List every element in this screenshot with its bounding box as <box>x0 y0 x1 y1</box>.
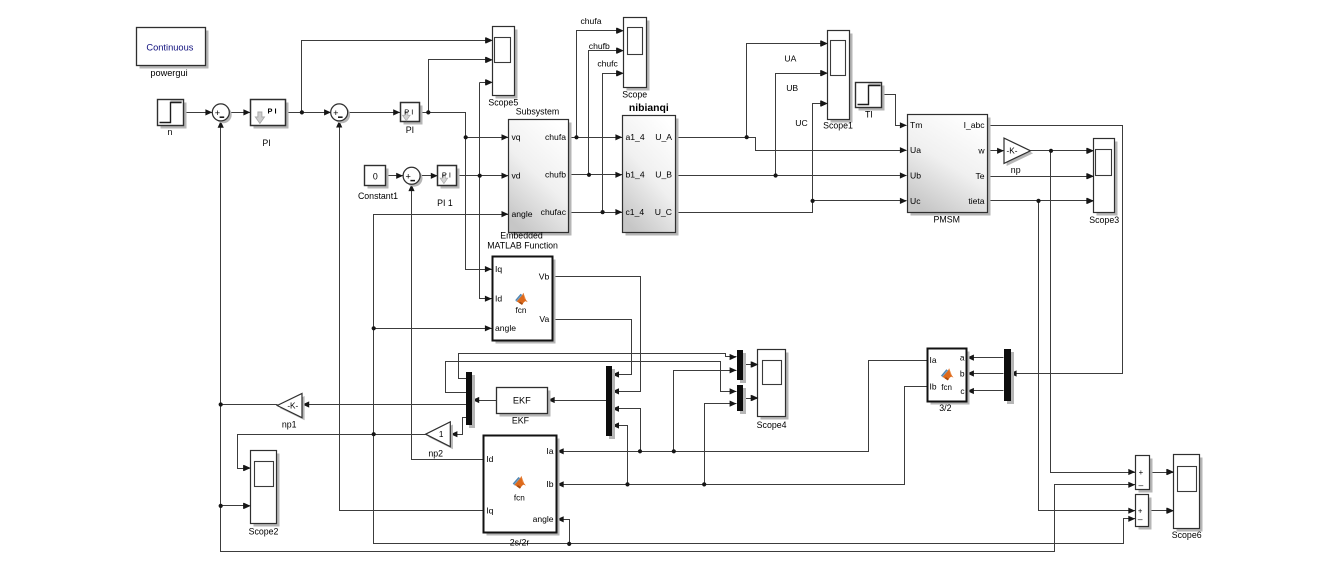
svg-text:Constant1: Constant1 <box>358 191 398 201</box>
svg-text:c1_4: c1_4 <box>626 207 645 217</box>
svg-text:EKF: EKF <box>513 396 531 406</box>
wire demux out2 to mux8 in1 <box>446 362 737 395</box>
Scope4 mux lower <box>737 385 746 414</box>
svg-text:a: a <box>960 353 965 363</box>
step block TI <box>856 83 885 111</box>
svg-text:b: b <box>960 369 965 379</box>
svg-text:PI 1: PI 1 <box>437 198 453 208</box>
svg-text:UB: UB <box>786 83 798 93</box>
signal label UC <box>795 118 807 128</box>
svg-text:Continuous: Continuous <box>146 43 193 53</box>
Scope6 <box>1167 455 1202 541</box>
wire Iq output to sum2 <box>336 121 483 511</box>
svg-text:+: + <box>333 108 338 118</box>
svg-text:angle: angle <box>512 209 533 219</box>
label np <box>1011 165 1021 175</box>
svg-text:3/2: 3/2 <box>939 403 951 413</box>
svg-text:Ub: Ub <box>910 170 921 180</box>
svg-text:n: n <box>168 127 173 137</box>
label Constant1 <box>358 191 398 201</box>
wire w to gain np <box>988 148 1005 154</box>
Scope4 <box>752 350 789 431</box>
svg-text:Ia: Ia <box>546 446 553 456</box>
svg-text:Ib: Ib <box>546 479 553 489</box>
label Subsystem <box>516 107 560 117</box>
label n <box>168 127 173 137</box>
svg-text:+: + <box>215 108 220 118</box>
svg-text:Scope3: Scope3 <box>1089 215 1119 225</box>
svg-text:Embedded: Embedded <box>500 231 543 241</box>
signal label chufb <box>589 41 610 51</box>
svg-text:chufa: chufa <box>580 16 601 26</box>
wire Ib branch to mux in4 <box>612 422 627 484</box>
svg-text:EKF: EKF <box>512 416 530 426</box>
wire I_abc to current demux <box>988 126 1123 377</box>
svg-text:1: 1 <box>439 430 444 439</box>
svg-text:vq: vq <box>512 132 521 142</box>
label 3/2 <box>939 403 951 413</box>
svg-text:angle: angle <box>495 323 516 333</box>
wire PI 1 out: to vd, Id and Scope5 in3 <box>457 79 509 301</box>
label np2 <box>428 449 443 459</box>
wire demux out3 to np1 <box>302 401 466 407</box>
step block n <box>158 100 187 129</box>
SumB block <box>1136 495 1152 530</box>
svg-text:+: + <box>406 171 411 181</box>
svg-text:chufa: chufa <box>545 132 566 142</box>
current demux bar <box>1004 349 1014 404</box>
svg-text:Subsystem: Subsystem <box>516 107 560 117</box>
wire Vb to mux in2 <box>553 277 641 395</box>
wire demux out1 to mux7 in1 <box>459 354 737 379</box>
svg-text:chufb: chufb <box>545 170 566 180</box>
Scope3 <box>1087 139 1119 226</box>
svg-text:powergui: powergui <box>150 68 187 78</box>
wire Id output to sum3 <box>408 184 483 459</box>
svg-text:UC: UC <box>795 118 807 128</box>
svg-text:P I: P I <box>268 107 277 116</box>
wire demux out4 to np2 <box>451 418 467 438</box>
svg-text:Scope4: Scope4 <box>757 420 787 430</box>
wire chufac to c1_4 and Scope <box>569 70 624 215</box>
svg-text:chufac: chufac <box>541 207 567 217</box>
svg-text:Ia: Ia <box>930 355 937 365</box>
wire Ia branch to mux in3 <box>612 406 640 452</box>
wire TI to Tm <box>882 95 907 129</box>
wire Ia net from 3/2 to 2s2r <box>557 361 928 455</box>
label 2s/2r <box>510 538 530 548</box>
svg-text:Iq: Iq <box>495 264 502 274</box>
wire np1 feedback to sum1 Scope2 and SumA minus <box>218 121 1136 552</box>
wire Va to mux in1 <box>553 320 632 378</box>
PI controller block <box>251 100 289 129</box>
wire current demux to 3/2 a b c <box>967 355 1004 395</box>
svg-text:chufc: chufc <box>597 59 618 69</box>
svg-text:2s/2r: 2s/2r <box>510 538 530 548</box>
wire U_A to Ua and Scope1 <box>676 40 907 153</box>
Scope1 <box>821 31 853 131</box>
label TI <box>865 110 873 120</box>
gain np1 <box>277 393 304 420</box>
svg-text:U_A: U_A <box>655 132 672 142</box>
Subsystem block <box>509 120 572 236</box>
svg-text:Id: Id <box>486 454 493 464</box>
sum3 <box>403 167 422 186</box>
signal label chufc <box>597 59 618 69</box>
wire U_B to Ub and Scope1 <box>676 70 907 179</box>
wire np to Scope3 and SumA <box>1031 148 1136 475</box>
svg-text:fcn: fcn <box>941 383 952 392</box>
svg-text:PI: PI <box>262 138 270 148</box>
svg-text:b1_4: b1_4 <box>626 170 645 180</box>
svg-text:Scope5: Scope5 <box>488 98 518 108</box>
svg-text:Ib: Ib <box>930 381 937 391</box>
svg-text:0: 0 <box>373 171 378 181</box>
svg-text:–: – <box>1139 480 1144 490</box>
label Embedded MATLAB Function <box>487 231 558 251</box>
svg-text:PMSM: PMSM <box>934 215 960 225</box>
signal label UB <box>786 83 798 93</box>
label PI small <box>406 125 414 135</box>
svg-text:Tm: Tm <box>910 120 922 130</box>
EKF block <box>497 388 551 417</box>
Scope4 mux upper <box>737 350 746 383</box>
powergui block <box>137 28 209 69</box>
svg-text:Vb: Vb <box>539 271 550 281</box>
svg-text:chufb: chufb <box>589 41 610 51</box>
signal label chufa <box>580 16 601 26</box>
svg-text:P I: P I <box>442 171 451 180</box>
PMSM block <box>908 115 991 216</box>
label np1 <box>282 420 297 430</box>
sum2 <box>331 104 350 123</box>
wire sum2 to PI small <box>348 109 401 115</box>
svg-text:I_abc: I_abc <box>964 120 986 130</box>
svg-text:-K-: -K- <box>287 401 298 410</box>
Scope2 <box>244 451 280 537</box>
svg-text:MATLAB Function: MATLAB Function <box>487 241 558 251</box>
wire mux7 to Scope4 in1 <box>743 361 758 367</box>
svg-text:Uc: Uc <box>910 196 921 206</box>
svg-text:Scope1: Scope1 <box>823 121 853 131</box>
svg-text:fcn: fcn <box>514 494 525 503</box>
svg-text:np1: np1 <box>282 420 297 430</box>
svg-text:a1_4: a1_4 <box>626 132 645 142</box>
svg-text:TI: TI <box>865 110 873 120</box>
wire chufa to a1_4 and Scope <box>569 28 624 141</box>
svg-text:–: – <box>1138 514 1143 524</box>
wire Constant1 to sum3 <box>387 173 404 179</box>
wire sum3 to PI 1 <box>420 173 438 179</box>
wire tieta to Scope3 and SumB <box>988 198 1136 514</box>
svg-text:Te: Te <box>976 171 985 181</box>
svg-text:vd: vd <box>512 171 521 181</box>
Scope block top <box>617 18 650 100</box>
wire PI to sum2 with branch to Scope5 <box>286 37 493 115</box>
gain np2 <box>426 422 453 449</box>
svg-text:Va: Va <box>539 314 549 324</box>
label EKF <box>512 416 530 426</box>
wire EKF to demux <box>472 397 496 403</box>
wire SumB to Scope6 <box>1149 508 1174 514</box>
wire sum1 to PI <box>230 109 251 115</box>
EKF mux bar <box>606 366 615 439</box>
wire U_C to Uc and Scope1 <box>676 100 907 212</box>
svg-text:Ua: Ua <box>910 145 921 155</box>
svg-text:Iq: Iq <box>486 505 493 515</box>
wire SumA to Scope6 <box>1150 469 1174 475</box>
SumA block <box>1136 456 1153 493</box>
svg-text:nibianqi: nibianqi <box>629 103 669 114</box>
EKF demux bar <box>466 372 475 428</box>
svg-text:PI: PI <box>406 125 414 135</box>
svg-text:Scope6: Scope6 <box>1172 530 1202 540</box>
powergui label <box>150 68 187 78</box>
wire PI small out: to vq and Iq, branch to Scope5 in2 <box>420 57 509 272</box>
signal label UA <box>784 54 796 64</box>
wire Ib net from 3/2 to 2s2r <box>557 387 928 488</box>
wire mux to EKF <box>548 397 607 403</box>
svg-text:-K-: -K- <box>1007 147 1018 156</box>
svg-text:Id: Id <box>495 294 502 304</box>
wire angle net from np2 output <box>238 211 1136 546</box>
wire n to sum1 <box>184 109 213 115</box>
svg-text:tieta: tieta <box>968 196 984 206</box>
svg-text:Scope: Scope <box>622 90 647 100</box>
svg-text:U_C: U_C <box>655 207 672 217</box>
2s/2r fcn block <box>484 436 560 536</box>
3/2 fcn block <box>928 349 970 405</box>
label PMSM <box>934 215 960 225</box>
svg-text:U_B: U_B <box>655 170 672 180</box>
sum1 <box>212 104 231 123</box>
wire chufb to b1_4 and Scope <box>569 48 624 178</box>
Constant1 block <box>365 166 389 189</box>
svg-text:P I: P I <box>404 108 413 117</box>
gain np <box>1004 138 1033 166</box>
Scope5 <box>486 27 518 108</box>
label nibianqi <box>629 103 669 114</box>
Embedded MATLAB fcn block <box>493 257 556 344</box>
PI 1 block <box>438 166 460 189</box>
wire Te to Scope3 <box>988 173 1094 179</box>
svg-text:w: w <box>977 146 985 156</box>
svg-text:Scope2: Scope2 <box>249 527 279 537</box>
nibianqi block <box>623 116 679 236</box>
svg-text:+: + <box>1139 468 1144 477</box>
svg-text:angle: angle <box>533 514 554 524</box>
svg-text:UA: UA <box>784 54 796 64</box>
svg-text:np2: np2 <box>428 449 443 459</box>
PI small block <box>401 103 423 125</box>
label PI 1 <box>437 198 453 208</box>
label PI <box>262 138 270 148</box>
svg-text:fcn: fcn <box>516 306 527 315</box>
wire mux8 to Scope4 in2 <box>743 395 758 401</box>
svg-text:c: c <box>960 386 964 396</box>
svg-text:np: np <box>1011 165 1021 175</box>
